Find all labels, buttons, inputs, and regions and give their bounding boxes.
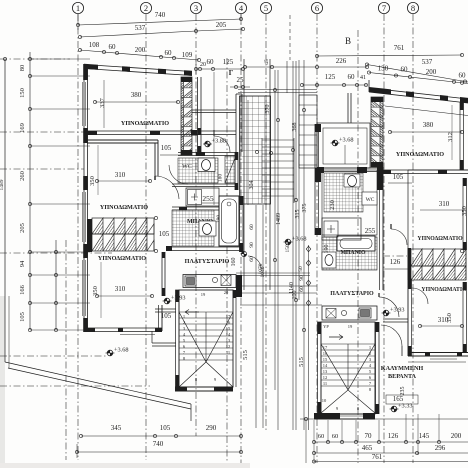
svg-text:60: 60 xyxy=(207,58,215,66)
dim chain 761 top right xyxy=(315,44,463,58)
corridor kitchen-line extensions xyxy=(236,273,322,305)
svg-text:190: 190 xyxy=(324,245,330,254)
shaft room 255 xyxy=(186,188,219,206)
corridor vertical with diamond ticks xyxy=(306,245,311,430)
dim chain 130 60 200 60 (sloped right, lower) xyxy=(367,65,468,85)
right unit porch xyxy=(317,123,383,173)
dim chain 537 (sloped right, upper) xyxy=(365,58,468,83)
svg-text:260: 260 xyxy=(19,171,26,181)
dim 25 xyxy=(230,76,250,89)
svg-text:105: 105 xyxy=(393,173,404,181)
grid axis 4 xyxy=(235,2,246,463)
svg-text:B: B xyxy=(345,36,351,46)
svg-text:13: 13 xyxy=(226,338,231,343)
svg-text:ΥΠΝΟΔΩΜΑΤΙΟ: ΥΠΝΟΔΩΜΑΤΙΟ xyxy=(121,120,169,127)
stair bottom wall left unit xyxy=(175,377,233,392)
svg-text:740: 740 xyxy=(155,11,166,19)
svg-text:25: 25 xyxy=(237,76,245,84)
svg-text:12: 12 xyxy=(323,375,328,380)
right stair side wall xyxy=(376,319,409,414)
svg-text:126: 126 xyxy=(390,258,401,266)
svg-text:94: 94 xyxy=(19,260,26,267)
svg-text:11: 11 xyxy=(323,381,327,386)
stairwell left unit xyxy=(176,290,234,387)
right unit wc tiled block xyxy=(322,167,383,290)
svg-text:169: 169 xyxy=(19,123,26,133)
svg-text:60: 60 xyxy=(109,43,117,51)
svg-text:ΥΠΝΟΔΩΜΑΤΙΟ: ΥΠΝΟΔΩΜΑΤΙΟ xyxy=(98,255,146,262)
left unit outer top wall (sloped, with windows) xyxy=(84,64,192,76)
svg-text:+3.88: +3.88 xyxy=(212,138,227,145)
corridor left wall xyxy=(162,252,165,296)
svg-text:Γ: Γ xyxy=(229,69,234,77)
elevation marker +3.68 left xyxy=(106,347,129,356)
external stair treads center-left flight xyxy=(255,138,294,203)
dim chain 226 xyxy=(243,57,368,69)
svg-text:310: 310 xyxy=(439,200,450,208)
bedroom2 walls xyxy=(87,140,179,199)
svg-text:17: 17 xyxy=(323,345,328,350)
left unit left wall with windows xyxy=(83,64,88,332)
right stairwell xyxy=(318,322,376,414)
right edge wall room B xyxy=(463,178,467,250)
svg-text:19: 19 xyxy=(348,324,353,329)
svg-text:7: 7 xyxy=(382,3,386,13)
svg-text:109: 109 xyxy=(182,51,193,59)
wall right of bath xyxy=(240,196,244,252)
svg-text:80: 80 xyxy=(19,65,26,72)
right bedroom A xyxy=(388,105,463,181)
elevation marker +3.68 right xyxy=(331,137,354,146)
svg-text:14: 14 xyxy=(226,332,231,337)
svg-text:200: 200 xyxy=(426,68,437,76)
svg-text:ΒΕΡΑΝΤΑ: ΒΕΡΑΝΤΑ xyxy=(388,373,417,380)
elevation marker +3.93 left xyxy=(163,295,186,304)
bottom dims right row3 xyxy=(312,453,468,463)
svg-text:370: 370 xyxy=(265,105,271,114)
svg-text:125: 125 xyxy=(223,58,234,66)
corridor rotated labels xyxy=(242,105,308,367)
veranda door arc xyxy=(381,325,402,356)
right edge wall room C xyxy=(463,282,467,352)
svg-text:337: 337 xyxy=(99,97,106,108)
bottom misc verticals xyxy=(314,414,439,463)
svg-text:60: 60 xyxy=(348,73,356,81)
grid axis 2 xyxy=(140,2,151,460)
external stair tiles center xyxy=(240,59,271,290)
wall under shaft xyxy=(172,207,240,211)
svg-text:60: 60 xyxy=(459,72,467,80)
svg-text:100: 100 xyxy=(292,291,298,300)
left vertical dim chain xyxy=(19,52,90,332)
bedroom2 labels xyxy=(89,144,182,211)
svg-text:1: 1 xyxy=(183,314,185,319)
svg-text:380: 380 xyxy=(423,121,434,129)
svg-text:350: 350 xyxy=(92,286,99,296)
grid axis 3 xyxy=(190,2,201,436)
grid axis 7 xyxy=(378,2,389,463)
dim chain 108 60 200 60 109 (sloped) xyxy=(78,41,200,62)
svg-text:WC: WC xyxy=(182,164,192,170)
horizontal axis y169 xyxy=(0,168,84,170)
svg-text:130: 130 xyxy=(378,65,389,73)
horizontal axis y59 xyxy=(0,58,70,60)
svg-text:255: 255 xyxy=(202,194,214,203)
grid axis 8 xyxy=(407,2,418,463)
right unit top wall sloped xyxy=(348,80,468,123)
svg-text:ΥP: ΥP xyxy=(323,324,329,329)
bedroom1 hatched right wall xyxy=(181,77,192,155)
svg-text:ΚΑΛΥΜΜΕΝΗ: ΚΑΛΥΜΜΕΝΗ xyxy=(381,365,424,372)
svg-text:ΥΠΝΟΔΩΜΑΤΙΟ: ΥΠΝΟΔΩΜΑΤΙΟ xyxy=(100,204,148,211)
svg-text:11: 11 xyxy=(226,350,230,355)
svg-text:60: 60 xyxy=(401,66,409,74)
svg-text:10: 10 xyxy=(322,398,327,403)
svg-text:1489: 1489 xyxy=(276,213,282,225)
right kitchen counter xyxy=(322,306,377,320)
balcony sawtooth hatch rows xyxy=(87,216,170,252)
svg-text:105: 105 xyxy=(160,424,171,432)
bedroom3 xyxy=(87,255,172,335)
right stair bottom wall xyxy=(314,406,375,419)
svg-text:70: 70 xyxy=(365,432,373,440)
external steps to right unit xyxy=(299,95,317,168)
corridor long dim verticals xyxy=(256,60,306,430)
svg-text:60: 60 xyxy=(249,224,255,230)
svg-text:8: 8 xyxy=(411,3,415,13)
svg-text:12: 12 xyxy=(226,344,231,349)
svg-text:350: 350 xyxy=(446,313,453,323)
svg-text:+3.68: +3.68 xyxy=(114,347,129,354)
svg-text:15: 15 xyxy=(323,357,328,362)
bedroom1 interior xyxy=(93,80,179,128)
svg-text:90: 90 xyxy=(299,275,305,281)
svg-text:166: 166 xyxy=(19,284,26,295)
right bathroom with tub xyxy=(322,236,408,270)
right bedroom B sawtooth balcony xyxy=(383,248,466,280)
svg-text:+3.68: +3.68 xyxy=(339,137,354,144)
svg-text:740: 740 xyxy=(153,440,164,448)
svg-text:2: 2 xyxy=(183,320,185,325)
svg-text:1489: 1489 xyxy=(0,179,5,190)
section line B xyxy=(345,30,358,463)
svg-text:312: 312 xyxy=(447,132,454,142)
svg-text:255: 255 xyxy=(365,227,376,235)
grid axis 5 xyxy=(260,2,271,430)
svg-text:50: 50 xyxy=(298,266,304,272)
svg-text:1040: 1040 xyxy=(260,266,266,277)
corridor black wall bits xyxy=(236,275,242,297)
horizontal axis y253 xyxy=(0,252,112,254)
svg-text:345: 345 xyxy=(111,424,122,432)
secondary axis x66 xyxy=(65,240,67,460)
bathroom tiled xyxy=(172,210,222,246)
svg-text:1: 1 xyxy=(369,345,371,350)
svg-text:20: 20 xyxy=(200,62,206,68)
wall under bath xyxy=(166,246,240,251)
right unit entry walls xyxy=(315,124,321,235)
wall above WC xyxy=(178,152,238,156)
svg-text:60: 60 xyxy=(318,433,325,440)
svg-text:41: 41 xyxy=(360,75,366,81)
bedroom1 bottom wall xyxy=(87,130,236,136)
right shaft room xyxy=(322,218,376,240)
svg-text:105: 105 xyxy=(19,312,26,322)
grid axis 1 xyxy=(72,2,83,460)
corridor extra labels xyxy=(260,266,304,278)
svg-text:45: 45 xyxy=(264,59,270,65)
helper dashed axis xyxy=(289,15,291,60)
svg-text:+3.93: +3.93 xyxy=(390,307,405,314)
svg-text:368: 368 xyxy=(292,123,298,132)
wc room tiled xyxy=(169,158,218,184)
svg-text:90: 90 xyxy=(249,242,255,248)
svg-text:537: 537 xyxy=(135,24,146,32)
svg-text:60: 60 xyxy=(332,433,339,440)
svg-text:1: 1 xyxy=(76,3,80,13)
covered veranda labels xyxy=(381,365,424,404)
svg-text:5: 5 xyxy=(264,3,268,13)
dim chain 740 top xyxy=(76,11,242,30)
svg-text:180: 180 xyxy=(218,174,224,183)
svg-text:515: 515 xyxy=(242,350,249,360)
bottom dim 740 xyxy=(75,440,242,458)
svg-text:126: 126 xyxy=(388,432,399,440)
svg-text:200: 200 xyxy=(451,432,462,440)
svg-text:2: 2 xyxy=(369,351,371,356)
svg-text:315: 315 xyxy=(295,210,301,219)
svg-text:ΠΛΑΤΥΣΤΑΡΙΟ: ΠΛΑΤΥΣΤΑΡΙΟ xyxy=(185,258,230,265)
svg-text:60: 60 xyxy=(299,286,305,292)
right bedroom B xyxy=(391,170,468,304)
svg-text:350: 350 xyxy=(89,176,96,186)
svg-text:+3.33: +3.33 xyxy=(398,403,413,410)
svg-text:230: 230 xyxy=(329,200,336,210)
svg-text:ΥΠΝΟΔΩΜΑΤΙΟ: ΥΠΝΟΔΩΜΑΤΙΟ xyxy=(421,287,467,293)
right unit right edge wall xyxy=(460,102,464,170)
bedroom A bottom wall xyxy=(383,170,468,183)
bottom dims right row1 xyxy=(312,432,468,444)
svg-text:WC: WC xyxy=(366,197,375,203)
corridor cross walls xyxy=(238,90,317,294)
elevation marker +3.93 right xyxy=(382,307,405,316)
horizontal axis y132 xyxy=(0,131,84,133)
svg-text:290: 290 xyxy=(206,424,217,432)
small left circle column bottom xyxy=(300,417,468,463)
svg-text:ΠΛΑΤΥΣΤΑΡΙΟ: ΠΛΑΤΥΣΤΑΡΙΟ xyxy=(330,291,374,297)
grid axis 6 xyxy=(311,2,322,463)
svg-text:125: 125 xyxy=(325,73,336,81)
corridor walls under bedroom3 xyxy=(152,309,176,346)
svg-text:205: 205 xyxy=(19,223,26,233)
wall under WC xyxy=(172,184,238,187)
svg-text:205: 205 xyxy=(216,21,227,29)
wall x236-242 and helper lines xyxy=(192,72,242,205)
svg-text:761: 761 xyxy=(394,44,405,52)
horizontal axis y356 xyxy=(0,355,108,357)
svg-text:16: 16 xyxy=(323,351,328,356)
horizontal axis y386 xyxy=(0,385,150,387)
wall right of left stair xyxy=(233,290,236,387)
dim chain 537 / 205 xyxy=(78,21,244,39)
svg-text:304: 304 xyxy=(249,181,255,190)
svg-text:515: 515 xyxy=(298,357,305,367)
svg-text:105: 105 xyxy=(159,230,170,238)
svg-text:226: 226 xyxy=(336,57,347,65)
right landing xyxy=(330,291,399,317)
far left boundary xyxy=(0,57,7,296)
bathtub xyxy=(219,196,239,246)
svg-text:350: 350 xyxy=(461,206,468,216)
svg-text:200: 200 xyxy=(135,46,146,54)
svg-text:537: 537 xyxy=(422,58,433,66)
svg-text:13: 13 xyxy=(323,369,328,374)
svg-text:465: 465 xyxy=(362,444,373,452)
right bedroom C box xyxy=(408,279,468,362)
bottom dims 345 105 290 xyxy=(79,424,242,438)
right unit hatched wall strip xyxy=(371,97,383,167)
svg-text:+3.68: +3.68 xyxy=(292,236,307,243)
section line Gamma xyxy=(227,58,234,463)
svg-text:19: 19 xyxy=(201,292,206,297)
dim chain 125 60 41 xyxy=(300,73,367,87)
svg-text:60: 60 xyxy=(165,49,173,57)
elevation marker +3.88 xyxy=(203,138,226,147)
svg-text:296: 296 xyxy=(435,444,446,452)
svg-text:ΥΠΝΟΔΩΜΑΤΙΟ: ΥΠΝΟΔΩΜΑΤΙΟ xyxy=(417,236,463,242)
svg-text:145: 145 xyxy=(419,432,430,440)
svg-text:15: 15 xyxy=(226,326,231,331)
svg-text:16: 16 xyxy=(226,320,231,325)
elevation marker +3.33 veranda xyxy=(390,403,413,412)
svg-text:105: 105 xyxy=(161,144,172,152)
terrace boundary slanted xyxy=(5,296,191,421)
svg-text:14: 14 xyxy=(323,363,328,368)
svg-text:2: 2 xyxy=(144,3,148,13)
svg-text:310: 310 xyxy=(115,171,126,179)
svg-text:3: 3 xyxy=(194,3,198,13)
bottom dims right row2 xyxy=(312,444,468,455)
shower cell xyxy=(218,152,239,190)
svg-text:375: 375 xyxy=(302,204,308,213)
svg-text:150: 150 xyxy=(19,88,26,98)
corridor door arc + marker xyxy=(241,251,261,269)
svg-text:310: 310 xyxy=(115,285,126,293)
svg-text:6: 6 xyxy=(315,3,319,13)
kitchen counter left unit xyxy=(183,275,236,296)
svg-text:ΜΠΑΝΙΟ: ΜΠΑΝΙΟ xyxy=(340,250,366,256)
elevation marker +3.68 center xyxy=(284,236,307,245)
svg-text:ΥΠΝΟΔΩΜΑΤΙΟ: ΥΠΝΟΔΩΜΑΤΙΟ xyxy=(396,151,444,158)
svg-text:380: 380 xyxy=(131,91,142,99)
svg-text:235: 235 xyxy=(400,387,406,396)
svg-text:20: 20 xyxy=(224,290,229,295)
dim chain 20 60 125 xyxy=(194,58,244,74)
svg-text:160: 160 xyxy=(231,258,237,267)
svg-text:761: 761 xyxy=(372,453,383,461)
svg-text:108: 108 xyxy=(89,41,100,49)
entry vestibule walls xyxy=(198,77,231,152)
svg-text:17: 17 xyxy=(226,314,231,319)
